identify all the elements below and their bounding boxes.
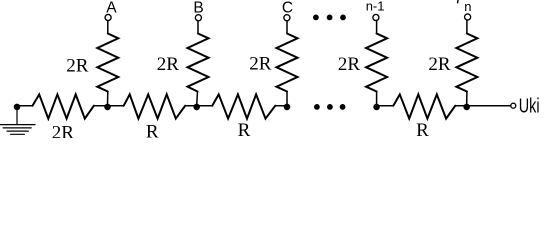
terminal n-1	[373, 14, 379, 20]
wire	[107, 21, 109, 34]
svg-text:2R: 2R	[66, 56, 89, 77]
terminal Uki	[511, 103, 516, 108]
wire	[107, 92, 109, 106]
svg-text:C: C	[282, 0, 293, 16]
node GND	[14, 104, 21, 111]
svg-text:B: B	[193, 0, 203, 16]
svg-text:n-1: n-1	[366, 0, 385, 14]
svg-text:R: R	[146, 121, 159, 138]
resistor R (series 1)	[124, 94, 186, 118]
svg-text:2R: 2R	[52, 122, 75, 138]
svg-text:R: R	[416, 120, 429, 138]
wire	[185, 105, 197, 107]
svg-text:R: R	[238, 120, 251, 138]
wire	[286, 92, 288, 106]
node n-1	[373, 104, 380, 111]
resistor R (series 3)	[393, 94, 455, 118]
node A	[104, 104, 111, 111]
terminal B	[195, 15, 201, 21]
stray tick	[457, 0, 459, 3]
terminal n	[465, 14, 471, 20]
svg-text:A: A	[106, 0, 117, 16]
wire	[197, 105, 213, 107]
wire	[376, 21, 378, 34]
resistor 2R (shunt, input A)	[97, 34, 118, 92]
wire	[377, 105, 394, 107]
wire	[108, 105, 124, 107]
svg-text:2R: 2R	[428, 54, 451, 75]
wire	[466, 92, 468, 106]
wire	[275, 105, 287, 107]
wire	[196, 92, 199, 106]
resistor 2R (shunt, input C)	[277, 34, 298, 92]
node C	[284, 104, 291, 111]
ground	[0, 107, 35, 134]
wire	[466, 20, 468, 33]
resistor 2R (series, leftmost)	[33, 94, 94, 118]
resistor 2R (shunt, input n-1)	[366, 34, 387, 92]
svg-text:2R: 2R	[249, 53, 272, 74]
svg-text:2R: 2R	[157, 54, 180, 75]
wire	[286, 21, 288, 34]
wire	[17, 105, 33, 107]
wire	[376, 92, 378, 106]
ellipsis top	[313, 15, 346, 21]
resistor 2R (shunt, input n)	[456, 34, 477, 92]
terminal C	[284, 15, 290, 21]
svg-text:Uki: Uki	[519, 94, 540, 117]
node B	[193, 104, 200, 111]
node n	[463, 104, 470, 111]
ellipsis bottom	[314, 104, 346, 110]
wire	[467, 105, 511, 107]
wire	[197, 21, 199, 34]
terminal A	[105, 14, 111, 20]
svg-text:2R: 2R	[338, 54, 361, 75]
resistor R (series 2)	[212, 94, 275, 118]
svg-text:n: n	[464, 0, 471, 14]
resistor 2R (shunt, input B)	[188, 34, 209, 92]
wire	[94, 105, 108, 107]
wire	[455, 105, 466, 107]
